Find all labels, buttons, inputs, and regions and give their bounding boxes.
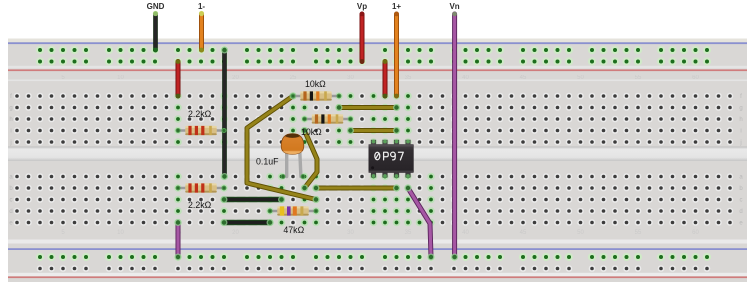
- svg-text:c: c: [740, 198, 743, 204]
- main grid holes bottom block: [14, 173, 734, 227]
- resistor R1 2.2k: [176, 126, 227, 135]
- svg-text:30: 30: [347, 230, 354, 236]
- svg-text:h: h: [739, 117, 742, 123]
- svg-text:10kΩ: 10kΩ: [305, 79, 326, 89]
- svg-text:60: 60: [692, 75, 699, 81]
- svg-text:j: j: [9, 140, 11, 146]
- resistor R3 10k: [302, 114, 353, 123]
- svg-text:35: 35: [405, 75, 412, 81]
- capacitor C1 0.1uF: [281, 132, 306, 179]
- resistor R4 2.2k: [176, 183, 227, 192]
- center channel groove: [8, 147, 747, 162]
- wire 1- orange from label to top rail row1: [199, 14, 204, 50]
- svg-text:20: 20: [232, 230, 239, 236]
- wire 1+ orange from label to f34: [394, 14, 399, 96]
- wire Vn purple from label to bottom rail row1: [452, 14, 457, 257]
- wire W3 dark-yellow: f25 to c27 around capacitor left: [247, 96, 316, 200]
- svg-text:j: j: [739, 140, 741, 146]
- svg-text:45: 45: [520, 75, 527, 81]
- wire Vp red from label to top rail row2: [360, 14, 365, 62]
- svg-text:Vn: Vn: [449, 2, 459, 11]
- svg-text:20: 20: [232, 75, 239, 81]
- svg-text:d: d: [739, 209, 742, 215]
- bottom red rail line: [8, 276, 747, 278]
- svg-text:50: 50: [577, 230, 584, 236]
- wire W1 dark-yellow: g29 to g34: [339, 105, 397, 110]
- wire W4 dark-yellow: i26 to b26 around capacitor right: [305, 131, 318, 189]
- svg-text:60: 60: [692, 230, 699, 236]
- wire W5 dark-yellow: b27 to b34: [316, 186, 397, 191]
- wire black jumper c19 to c24: [224, 197, 282, 202]
- top blue rail line: [8, 42, 747, 44]
- svg-text:50: 50: [577, 75, 584, 81]
- svg-text:30: 30: [347, 75, 354, 81]
- wire purple: e15 to bottom rail row1: [176, 223, 181, 258]
- svg-text:55: 55: [635, 75, 642, 81]
- op-amp U1 OP97 DIP-8: [369, 140, 414, 178]
- svg-text:10: 10: [117, 230, 124, 236]
- wire red stub: top rail row2 to f33: [383, 62, 388, 97]
- svg-text:Vp: Vp: [357, 2, 367, 11]
- power rail holes: [36, 46, 711, 272]
- bottom blue rail line: [8, 248, 747, 250]
- svg-text:40: 40: [462, 75, 469, 81]
- svg-text:47kΩ: 47kΩ: [283, 225, 304, 235]
- svg-text:25: 25: [290, 75, 297, 81]
- svg-text:g: g: [739, 106, 742, 112]
- faint row letters: [9, 94, 743, 227]
- svg-text:1+: 1+: [392, 2, 401, 11]
- wire black jumper e19 to e23: [224, 220, 270, 225]
- svg-text:2.2kΩ: 2.2kΩ: [188, 109, 212, 119]
- svg-text:0.1uF: 0.1uF: [256, 157, 279, 167]
- top red rail line: [8, 69, 747, 71]
- resistor R2 10k: [291, 91, 342, 100]
- svg-text:i: i: [740, 129, 741, 135]
- svg-text:i: i: [10, 129, 11, 135]
- wire W2 dark-yellow: i30 to i34: [351, 128, 397, 133]
- svg-text:45: 45: [520, 230, 527, 236]
- svg-text:2.2kΩ: 2.2kΩ: [188, 200, 212, 210]
- svg-text:10kΩ: 10kΩ: [301, 127, 322, 137]
- wire black vertical: top rail row1 to a19: [222, 50, 227, 177]
- svg-text:g: g: [9, 106, 12, 112]
- resistor R5 47k: [268, 206, 319, 215]
- svg-text:35: 35: [405, 230, 412, 236]
- svg-text:10: 10: [117, 75, 124, 81]
- svg-text:GND: GND: [147, 2, 165, 11]
- wire red stub: top rail row2 to f15: [176, 62, 181, 97]
- svg-text:h: h: [9, 117, 12, 123]
- main grid holes top block: [14, 92, 734, 146]
- wire GND black from label to top rail row1: [153, 14, 158, 50]
- svg-text:40: 40: [462, 230, 469, 236]
- faint column numbers: [61, 75, 699, 236]
- svg-text:c: c: [10, 198, 13, 204]
- svg-text:d: d: [9, 209, 12, 215]
- wire purple diagonal: b35 to bottom rail: [408, 188, 431, 257]
- svg-text:1-: 1-: [198, 2, 205, 11]
- svg-text:55: 55: [635, 230, 642, 236]
